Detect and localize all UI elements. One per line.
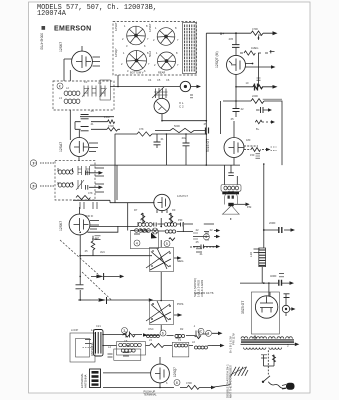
svg-text:470K: 470K (186, 381, 192, 385)
svg-text:120074A: 120074A (37, 10, 67, 18)
svg-text:AVC: AVC (100, 250, 105, 254)
svg-text:C5: C5 (157, 78, 161, 82)
svg-text:ANTENNA: ANTENNA (84, 375, 88, 388)
svg-text:5: 5 (166, 242, 168, 246)
svg-text:.05: .05 (195, 240, 199, 244)
svg-text:35Z5 GT: 35Z5 GT (241, 301, 245, 314)
svg-text:C6: C6 (166, 78, 170, 82)
svg-text:.02: .02 (240, 107, 244, 111)
svg-text:6: 6 (162, 331, 164, 335)
svg-text:LOOP: LOOP (71, 328, 78, 332)
svg-text:.05: .05 (203, 122, 207, 126)
svg-text:REAR: REAR (158, 71, 165, 75)
svg-text:.02: .02 (195, 228, 199, 232)
svg-text:12SQ7 (M): 12SQ7 (M) (215, 51, 219, 68)
svg-text:1M: 1M (95, 236, 99, 240)
svg-text:4: 4 (136, 241, 138, 245)
svg-text:TERMINAL: TERMINAL (144, 393, 158, 397)
svg-text:1MEG: 1MEG (251, 46, 258, 50)
svg-text:.02: .02 (209, 228, 213, 232)
svg-text:900-B 4703: 900-B 4703 (40, 33, 44, 50)
svg-text:150: 150 (250, 153, 255, 157)
svg-text:R4: R4 (258, 33, 262, 37)
svg-text:MNT THE A-C OR TUBES: MNT THE A-C OR TUBES (229, 365, 233, 398)
svg-text:R7: R7 (134, 208, 138, 212)
svg-text:470K: 470K (108, 124, 114, 128)
svg-text:OSC: OSC (148, 327, 154, 331)
svg-text:ANTENNA: ANTENNA (90, 343, 94, 356)
svg-text:47K: 47K (139, 127, 144, 131)
svg-text:180: 180 (246, 138, 251, 142)
svg-text:B+: B+ (220, 32, 224, 36)
svg-text:2: 2 (32, 184, 34, 188)
svg-text:12SJ7GT: 12SJ7GT (177, 194, 188, 198)
svg-text:470K: 470K (252, 27, 258, 31)
svg-text:C21: C21 (96, 324, 101, 328)
svg-text:40MF: 40MF (270, 274, 277, 278)
svg-text:.05: .05 (84, 249, 88, 253)
svg-text:.01: .01 (90, 122, 94, 126)
svg-text:3: 3 (123, 329, 125, 333)
svg-text:12SK7: 12SK7 (59, 221, 63, 231)
svg-text:R2: R2 (180, 327, 184, 331)
svg-text:12SA7: 12SA7 (114, 22, 118, 31)
svg-text:EMERSON: EMERSON (54, 26, 92, 33)
svg-text:12SA7: 12SA7 (59, 142, 63, 152)
svg-text:6: 6 (205, 235, 207, 239)
svg-text:2ND IF: 2ND IF (85, 214, 94, 218)
svg-text:.01: .01 (160, 137, 164, 141)
svg-text:B+: B+ (256, 127, 260, 131)
svg-text:SW.1 R2 C4 T6: SW.1 R2 C4 T6 (194, 291, 214, 295)
svg-text:20MF: 20MF (269, 221, 276, 225)
svg-text:7: 7 (207, 332, 209, 336)
svg-text:.05: .05 (230, 117, 234, 121)
svg-text:12SK7: 12SK7 (59, 42, 63, 52)
svg-text:C1: C1 (84, 80, 88, 84)
svg-text:12SK7: 12SK7 (148, 23, 152, 32)
svg-text:8: 8 (176, 381, 178, 385)
svg-text:12SQ7: 12SQ7 (114, 48, 118, 57)
svg-text:.002: .002 (181, 136, 187, 140)
svg-text:P.M: P.M (247, 205, 251, 209)
svg-text:NEG: NEG (177, 259, 184, 263)
svg-text:PRI 117V: PRI 117V (232, 333, 236, 345)
svg-text:C 2: C 2 (179, 105, 184, 109)
svg-text:C: C (200, 330, 203, 334)
svg-text:C8: C8 (124, 339, 128, 343)
svg-text:.01: .01 (199, 252, 203, 256)
svg-text:POS: POS (177, 302, 183, 306)
svg-text:50L6: 50L6 (148, 50, 152, 57)
svg-text:1: 1 (32, 161, 34, 165)
svg-text:2.2M: 2.2M (104, 115, 110, 119)
svg-text:L10: L10 (249, 252, 253, 257)
svg-text:BOTTOM V: BOTTOM V (130, 71, 144, 75)
svg-text:47K: 47K (88, 191, 93, 195)
svg-text:50L6 GT: 50L6 GT (206, 139, 210, 152)
svg-text:C4: C4 (148, 78, 152, 82)
svg-text:.05: .05 (90, 109, 94, 113)
svg-text:12SQ7: 12SQ7 (173, 367, 177, 377)
svg-text:500K: 500K (174, 124, 180, 128)
svg-text:220K: 220K (252, 94, 258, 98)
svg-text:.005: .005 (228, 37, 234, 41)
svg-text:PRI: PRI (178, 218, 183, 222)
svg-text:C3: C3 (98, 81, 102, 85)
svg-text:R9: R9 (172, 208, 176, 212)
